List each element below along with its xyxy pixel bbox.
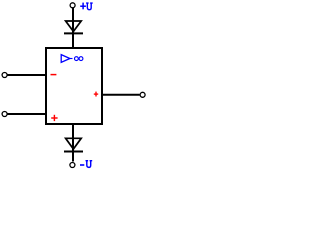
diode D2 (bottom, -U supply)	[64, 138, 83, 151]
label +U	[80, 3, 93, 10]
wire: -U supply vertical	[72, 124, 74, 162]
non-inverting input polarity label +	[51, 115, 57, 121]
inverting input polarity label -	[51, 74, 57, 76]
wire: inverting input	[7, 74, 46, 76]
op-amp U1 body	[46, 48, 102, 124]
terminal: non-inverting input	[2, 112, 7, 117]
diode D1 (top, +U supply)	[64, 21, 83, 33]
terminal: output	[140, 92, 145, 97]
op-amp gain symbol (triangle + infinity)	[61, 55, 83, 63]
terminal +U	[70, 3, 75, 8]
terminal: inverting input	[2, 73, 7, 78]
wire: output	[102, 94, 140, 96]
terminal -U	[70, 163, 75, 168]
label -U	[80, 160, 92, 167]
output polarity label +	[94, 92, 98, 97]
wire: non-inverting input	[7, 113, 46, 115]
wire: +U supply vertical	[72, 8, 74, 48]
